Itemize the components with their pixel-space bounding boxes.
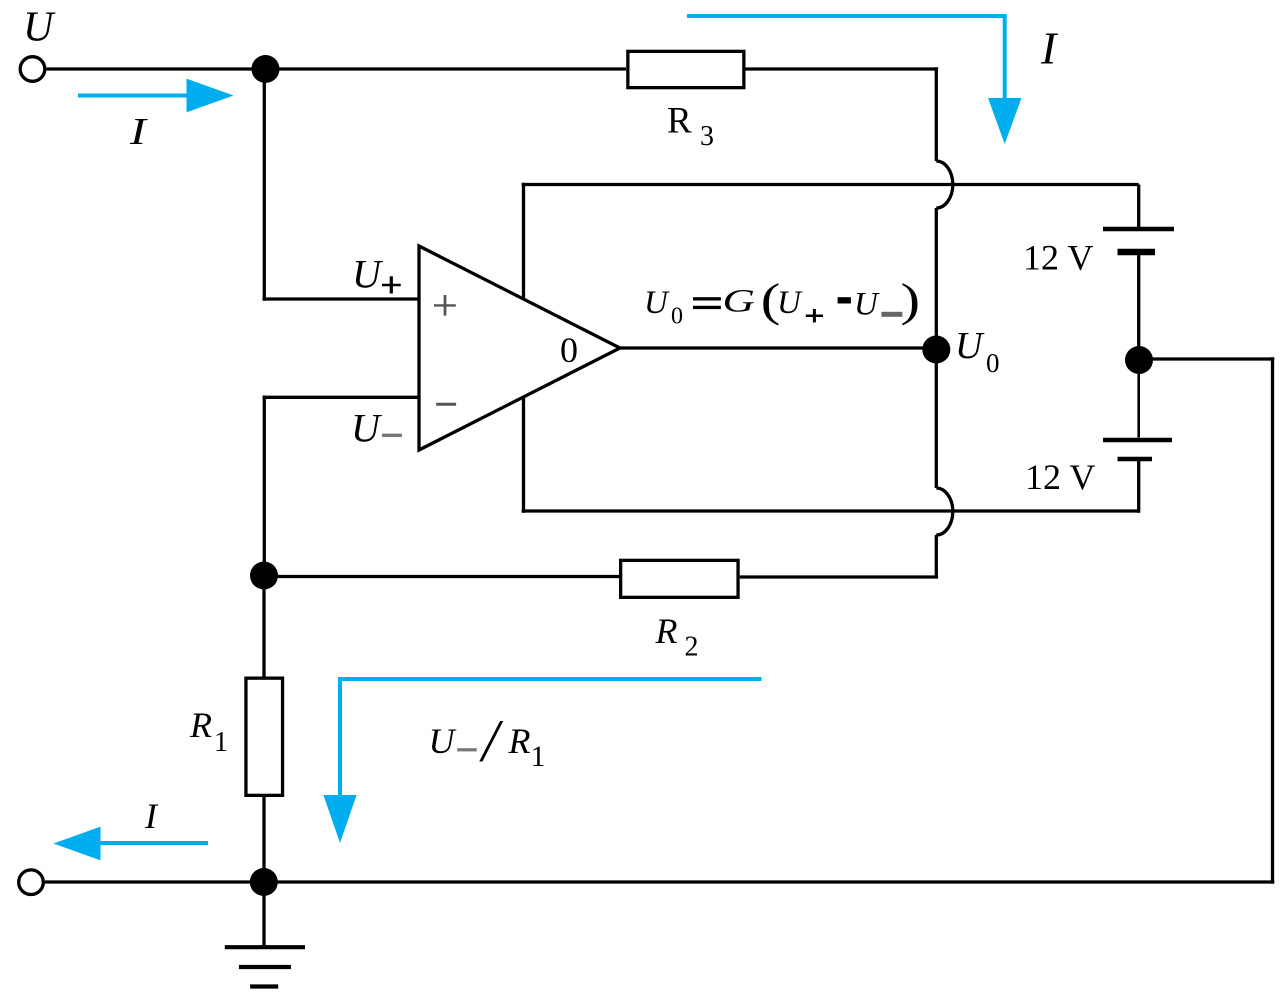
- wire R1 down to node C: [262, 797, 265, 882]
- wire R3 to output column: [746, 67, 939, 70]
- wire right edge down: [1271, 357, 1274, 883]
- wire op-amp output: [620, 346, 936, 349]
- wire battery midpoint to right edge: [1139, 357, 1274, 360]
- label U-/R1: [429, 708, 546, 774]
- svg-text:2: 2: [685, 632, 699, 663]
- op-amp U1 (triangle): [419, 246, 620, 450]
- op-amp - pin mark: [436, 403, 456, 406]
- svg-text:12 V: 12 V: [1025, 457, 1095, 497]
- svg-text:R: R: [655, 611, 678, 651]
- op-amp + pin mark: [434, 295, 456, 316]
- current arrow U-/R1 (cyan): [323, 677, 761, 843]
- svg-text:U: U: [352, 252, 384, 297]
- wire hop over top rail: [936, 161, 953, 208]
- svg-text:3: 3: [700, 121, 714, 152]
- wire battery column segment 4: [1137, 461, 1140, 513]
- resistor R2: [621, 560, 738, 597]
- svg-text:U: U: [23, 5, 56, 51]
- wire inverting input down to node B: [263, 396, 266, 576]
- label R3: [667, 100, 714, 152]
- wire output column middle: [935, 208, 938, 488]
- wire negative supply pin: [522, 397, 525, 513]
- svg-text:U: U: [777, 285, 803, 321]
- label U+: [352, 252, 401, 297]
- node battery midpoint: [1125, 346, 1153, 374]
- wire battery column segment 2: [1137, 255, 1140, 348]
- wire to - input: [263, 396, 420, 399]
- label U0: [955, 325, 1000, 378]
- svg-text:G: G: [723, 282, 755, 319]
- svg-text:U: U: [644, 285, 670, 321]
- wire output column upper: [935, 67, 938, 161]
- svg-text:I: I: [1040, 23, 1059, 74]
- svg-text:I: I: [144, 796, 159, 836]
- svg-text:1: 1: [531, 740, 546, 773]
- svg-text:I: I: [129, 111, 148, 153]
- label R1: [189, 705, 228, 758]
- wire positive supply pin: [522, 183, 525, 300]
- ground: [225, 882, 305, 987]
- svg-text:U: U: [351, 405, 383, 450]
- wire battery column segment 3: [1137, 360, 1140, 438]
- label R2: [655, 611, 699, 663]
- current arrow I (top-left, cyan): [78, 79, 234, 113]
- equation U0 = G (U+ - U-): [644, 274, 920, 330]
- wire bottom (ground rail): [45, 880, 1274, 883]
- resistor R1: [246, 678, 283, 795]
- svg-text:U: U: [854, 286, 880, 322]
- svg-text:0: 0: [671, 304, 683, 330]
- node C (ground junction): [250, 868, 278, 896]
- terminal bottom (open circle): [19, 870, 44, 895]
- wire hop over bottom rail: [936, 488, 953, 535]
- terminal U (open circle): [20, 57, 45, 82]
- wire battery column segment 1: [1137, 185, 1140, 228]
- svg-text:R: R: [508, 721, 531, 761]
- svg-text:1: 1: [214, 727, 228, 758]
- wire node B to R2: [264, 575, 619, 578]
- wire node B down to R1: [262, 576, 265, 677]
- wire output column lower: [935, 535, 938, 578]
- svg-text:0: 0: [560, 330, 578, 370]
- wire to + input: [263, 297, 420, 300]
- wire R2 to output column: [740, 575, 938, 578]
- battery V2 plate short: [1118, 457, 1153, 462]
- svg-text:): ): [901, 274, 921, 326]
- label U-: [351, 405, 402, 450]
- svg-text:U: U: [955, 325, 985, 367]
- current arrow I (bottom-left, cyan): [53, 827, 208, 861]
- svg-text:R: R: [189, 705, 212, 745]
- svg-text:0: 0: [986, 348, 1000, 378]
- wire top input: [47, 67, 627, 70]
- node A (input junction): [252, 55, 280, 83]
- wire top supply rail: [522, 183, 1139, 186]
- battery V1 plate long: [1103, 227, 1174, 232]
- svg-text:12 V: 12 V: [1023, 238, 1093, 278]
- svg-text:U: U: [429, 721, 457, 761]
- battery V2 plate long: [1103, 438, 1172, 443]
- wire bottom supply rail: [522, 509, 1139, 512]
- node B (feedback junction): [250, 562, 278, 590]
- node U0 (output): [922, 336, 950, 364]
- wire node A down to noninverting input: [263, 69, 266, 301]
- current arrow I (top-right, cyan): [687, 14, 1022, 144]
- svg-text:R: R: [667, 100, 692, 141]
- battery V1 plate short: [1118, 249, 1156, 256]
- resistor R3: [628, 51, 744, 87]
